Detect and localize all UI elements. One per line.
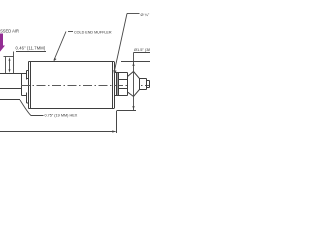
node barb cone (128, 72, 140, 97)
svg-text:Ø1.5" (38.1: Ø1.5" (38.1 (134, 47, 150, 52)
wire body left edge (28, 62, 30, 109)
node right hex (119, 72, 128, 74)
svg-text:0.46" (11.7MM): 0.46" (11.7MM) (16, 45, 46, 50)
node left hex right edge (21, 74, 23, 96)
node dia arrows (132, 62, 134, 66)
node compressed air arrow (0, 34, 5, 52)
wire body right edge (112, 62, 114, 109)
svg-text:COMPRESSED AIR: COMPRESSED AIR (0, 29, 19, 34)
svg-text:0.75" (19 MM) HEX: 0.75" (19 MM) HEX (45, 114, 78, 118)
wire body bottom edge (29, 108, 115, 110)
node overall dim (0, 111, 117, 134)
svg-text:Ø ¼" HO: Ø ¼" HO (141, 12, 151, 17)
node left hex bottom (0, 99, 20, 101)
svg-text:COLD END MUFFLER: COLD END MUFFLER (74, 30, 112, 34)
node right washer (117, 73, 119, 96)
wire body top edge (29, 61, 115, 63)
node dim 0.46 arrows (9, 57, 11, 61)
node barb stem (140, 78, 147, 80)
node left hex mid (0, 88, 22, 90)
node barb cap (147, 80, 150, 82)
node left washer (26, 71, 28, 80)
node left hex top (0, 73, 27, 75)
node centerline (21, 85, 150, 87)
